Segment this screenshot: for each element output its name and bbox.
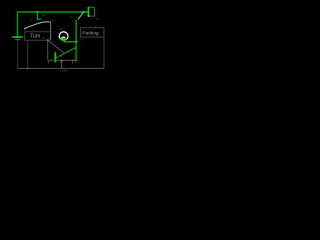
wire top rail [18,11,89,13]
lamp bottom stub [63,40,65,42]
battery V1 positive plate [13,36,23,38]
wire center tap to ground rail [61,61,63,69]
fuse corner light dot [88,15,90,16]
fuse F1 (green box top right) [88,7,94,16]
wire lamp bottom to parking vertical [64,41,76,43]
svg-text:15.7: 15.7 [51,41,56,44]
switch S1 turn lever (open) [25,22,51,29]
lamp L1 glow [61,37,65,41]
svg-text:Turn: Turn [30,34,40,40]
wire turn switch upper terminal [36,12,38,19]
pin tick right [72,61,74,63]
svg-text:S1: S1 [29,20,33,23]
wire second dark vertical [27,41,29,68]
svg-text:15.7: 15.7 [52,20,57,23]
wire filament base horizontal [48,59,76,61]
svg-text:15.7: 15.7 [79,39,84,42]
tiny mark near S1 [43,15,44,16]
wire turn lever to box right edge [50,22,52,40]
wire parking vertical [75,20,77,62]
parking box top notch [95,26,97,28]
wire green diagonal filament feed [56,47,76,58]
parking box frame [81,28,104,37]
battery V1 negative plate [15,39,21,40]
svg-text:D1: D1 [96,18,100,21]
filament bar (bright green) [55,52,57,62]
lamp bright upper-left arc [59,32,68,39]
ground rail [18,67,104,69]
svg-text:1.5: 1.5 [59,28,63,31]
svg-text:15.7: 15.7 [42,37,47,40]
wire turn output vertical [47,40,49,60]
node junction parking drop [82,11,84,13]
lamp L1 glass [59,32,68,41]
node ground rail junction [27,68,29,70]
svg-text:Parking: Parking [82,30,99,36]
parking box midline [80,36,104,38]
wire green stub left of parking vertical bottom [72,59,76,61]
pin tick left [48,61,50,63]
faint inner bar [58,55,62,57]
wire gray diagonal filament [48,40,65,53]
fuse bright left bar [88,7,90,17]
svg-text:1-GND: 1-GND [59,69,67,73]
turn box frame [25,32,51,41]
node junction lamp/parking [75,41,77,43]
svg-text:15.7: 15.7 [69,16,74,19]
node junction turn drop [36,11,38,13]
wire battery negative to ground rail [17,40,19,68]
switch S2 parking lever (closed) [78,12,84,19]
node junction under turn box [47,39,49,41]
switch S1 fixed contact foot [37,18,41,20]
lamp filament dome [61,37,66,38]
wire left drop from rail [17,12,19,36]
switch S1 pivot dot [24,28,26,30]
wire parking box right edge to ground [103,28,105,69]
node junction filament base [61,60,63,62]
